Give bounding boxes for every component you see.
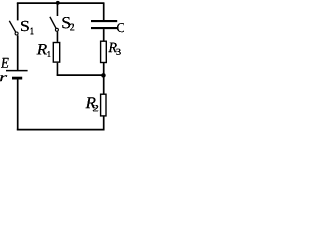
wire right from R3 through junction to R2 — [103, 63, 105, 95]
junction dot node between R3 and R2 — [101, 73, 106, 78]
switch S2 pivot circle — [55, 28, 58, 31]
wire top horizontal — [17, 2, 105, 4]
label r internal resistance — [0, 75, 7, 81]
resistor R3 box — [101, 41, 107, 62]
label R1 subscript 1 — [48, 51, 50, 57]
wire bottom horizontal — [17, 129, 105, 131]
label S1 subscript 1 — [31, 28, 33, 34]
wire right upper stub (top corner to capacitor) — [103, 3, 105, 20]
wire middle upper stub (junction to S2 contact) — [56, 3, 58, 16]
wire left from S1 down to battery — [17, 35, 19, 70]
wire right from R2 down to bottom corner — [103, 116, 105, 131]
battery E long plate — [6, 70, 28, 72]
label R3 letter R — [108, 43, 117, 52]
label R2 letter R — [85, 97, 95, 108]
junction dot at top of middle branch — [56, 1, 60, 5]
label R3 subscript 3 — [116, 49, 120, 55]
label S1 letter S — [21, 21, 29, 31]
label S2 letter S — [62, 17, 70, 28]
label S2 subscript 2 — [70, 24, 74, 31]
switch S1 pivot circle — [15, 32, 18, 35]
wire left upper stub (top corner to S1 contact) — [17, 3, 19, 21]
battery E short thick plate — [12, 77, 22, 80]
wire left lower (battery to bottom corner) — [17, 80, 19, 131]
label C — [117, 23, 125, 32]
switch S1 blade — [9, 21, 16, 34]
wire middle from R1 down to node corner — [56, 63, 58, 76]
label R1 letter R — [37, 44, 47, 54]
capacitor C top plate — [91, 20, 117, 22]
label R2 subscript 2 — [93, 105, 98, 111]
wire middle from S2 down to R1 — [56, 32, 58, 42]
resistor R2 box — [101, 94, 106, 116]
switch S2 blade — [50, 17, 57, 30]
capacitor C bottom plate — [91, 27, 117, 29]
label E emf — [1, 58, 9, 68]
wire right from capacitor to R3 — [103, 29, 105, 41]
resistor R1 box — [53, 43, 59, 63]
wire horizontal node link (R1 bottom to right branch) — [57, 74, 104, 76]
